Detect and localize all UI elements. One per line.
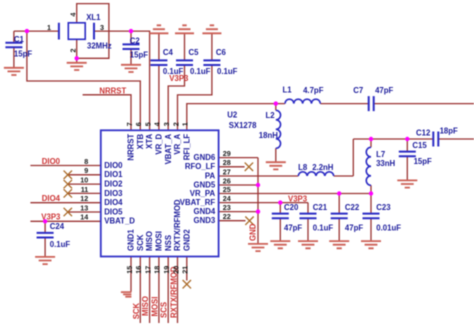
svg-text:DIO0: DIO0 — [42, 157, 61, 166]
svg-text:27: 27 — [223, 167, 231, 176]
svg-text:6: 6 — [134, 122, 143, 126]
svg-text:NRRST: NRRST — [127, 134, 136, 161]
svg-text:RFI_LF: RFI_LF — [182, 134, 191, 161]
svg-text:7: 7 — [125, 122, 134, 126]
svg-text:4: 4 — [153, 122, 162, 126]
svg-text:12: 12 — [80, 194, 88, 203]
svg-text:16: 16 — [134, 266, 143, 274]
svg-text:DIO2: DIO2 — [104, 180, 123, 189]
svg-text:VBAT_D: VBAT_D — [104, 217, 135, 226]
svg-text:GND1: GND1 — [127, 229, 136, 251]
svg-text:18pF: 18pF — [440, 127, 458, 136]
svg-text:0.1uF: 0.1uF — [190, 67, 211, 76]
svg-text:C23: C23 — [376, 203, 391, 212]
svg-text:SCK: SCK — [136, 234, 145, 251]
svg-text:0.1uF: 0.1uF — [217, 67, 238, 76]
svg-text:RXTX/RFMOD: RXTX/RFMOD — [173, 199, 182, 251]
svg-text:VR_A: VR_A — [173, 133, 182, 154]
svg-text:9: 9 — [84, 166, 88, 175]
svg-text:29: 29 — [223, 149, 231, 158]
svg-text:MISO: MISO — [145, 231, 154, 251]
svg-text:23: 23 — [223, 203, 231, 212]
svg-text:3: 3 — [100, 23, 104, 32]
svg-text:GND6: GND6 — [194, 153, 216, 162]
svg-text:22: 22 — [223, 212, 231, 221]
svg-text:C21: C21 — [313, 203, 328, 212]
svg-text:VR_PA: VR_PA — [190, 189, 216, 198]
svg-text:C22: C22 — [345, 203, 360, 212]
svg-text:GND2: GND2 — [182, 229, 191, 251]
svg-text:0.01uF: 0.01uF — [376, 224, 401, 233]
svg-text:PA: PA — [205, 171, 216, 180]
svg-text:13: 13 — [80, 203, 88, 212]
svg-text:C1: C1 — [14, 35, 25, 44]
svg-text:SCK: SCK — [132, 302, 141, 319]
svg-text:1: 1 — [47, 23, 51, 32]
svg-text:C20: C20 — [284, 203, 299, 212]
svg-text:SCS: SCS — [160, 302, 169, 318]
svg-text:C12: C12 — [416, 128, 431, 137]
svg-text:47pF: 47pF — [284, 224, 302, 233]
svg-text:XTA: XTA — [145, 133, 154, 148]
svg-text:11: 11 — [81, 185, 89, 194]
svg-text:21: 21 — [181, 266, 190, 274]
svg-text:VR_D: VR_D — [155, 133, 164, 154]
svg-text:17: 17 — [143, 266, 152, 274]
svg-text:4: 4 — [69, 13, 78, 17]
svg-text:V3P3: V3P3 — [169, 74, 189, 83]
svg-text:L1: L1 — [283, 86, 293, 95]
svg-text:MISO: MISO — [141, 296, 150, 316]
svg-text:15: 15 — [125, 266, 134, 274]
svg-text:18: 18 — [153, 266, 162, 274]
svg-text:XL1: XL1 — [86, 13, 101, 22]
svg-text:C15: C15 — [412, 141, 427, 150]
svg-text:L2: L2 — [266, 111, 276, 120]
svg-text:4.7pF: 4.7pF — [303, 86, 324, 95]
svg-text:DIO5: DIO5 — [104, 207, 123, 216]
svg-text:8: 8 — [84, 157, 88, 166]
svg-text:C6: C6 — [216, 48, 227, 57]
svg-text:C2: C2 — [130, 37, 141, 46]
svg-text:47pF: 47pF — [345, 224, 363, 233]
svg-text:47pF: 47pF — [375, 86, 393, 95]
svg-text:C24: C24 — [50, 222, 65, 231]
svg-text:19: 19 — [162, 266, 171, 274]
svg-text:GND: GND — [249, 223, 258, 241]
svg-text:DIO1: DIO1 — [104, 170, 123, 179]
svg-text:2: 2 — [171, 122, 180, 126]
svg-text:15pF: 15pF — [130, 50, 148, 59]
svg-text:RFO_LF: RFO_LF — [185, 162, 216, 171]
svg-text:NSS: NSS — [164, 235, 173, 251]
svg-text:VBAT_RF: VBAT_RF — [180, 198, 216, 207]
svg-text:DIO4: DIO4 — [42, 194, 61, 203]
svg-text:5: 5 — [143, 122, 152, 126]
svg-text:C4: C4 — [163, 48, 174, 57]
svg-text:XTB: XTB — [136, 133, 145, 149]
svg-text:U2: U2 — [227, 111, 238, 120]
svg-text:GND3: GND3 — [194, 216, 216, 225]
svg-text:L8: L8 — [298, 163, 308, 172]
svg-text:DIO0: DIO0 — [104, 161, 123, 170]
svg-text:NRRST: NRRST — [99, 87, 126, 96]
svg-text:1: 1 — [181, 122, 190, 126]
svg-text:32MHz: 32MHz — [87, 41, 112, 50]
svg-text:18nH: 18nH — [259, 131, 278, 140]
svg-text:SX1278: SX1278 — [229, 121, 257, 130]
svg-text:15pF: 15pF — [414, 157, 432, 166]
svg-text:25: 25 — [223, 185, 231, 194]
svg-text:2: 2 — [69, 49, 78, 53]
svg-text:15pF: 15pF — [14, 50, 32, 59]
svg-text:DIO3: DIO3 — [104, 189, 123, 198]
svg-text:20: 20 — [171, 266, 180, 274]
svg-text:C5: C5 — [189, 48, 200, 57]
svg-text:0.1uF: 0.1uF — [313, 224, 334, 233]
svg-text:3: 3 — [162, 122, 171, 126]
svg-text:28: 28 — [223, 158, 231, 167]
svg-text:MOSI: MOSI — [150, 297, 159, 317]
svg-text:33nH: 33nH — [376, 159, 395, 168]
svg-text:V3P3: V3P3 — [288, 194, 308, 203]
svg-text:10: 10 — [80, 176, 88, 185]
svg-text:GND4: GND4 — [194, 207, 216, 216]
svg-text:MOSI: MOSI — [155, 231, 164, 251]
svg-text:14: 14 — [80, 213, 88, 222]
svg-text:C7: C7 — [353, 86, 363, 95]
svg-text:0.1uF: 0.1uF — [50, 240, 71, 249]
svg-text:V3P3: V3P3 — [41, 213, 61, 222]
svg-text:VBAT_A: VBAT_A — [164, 133, 173, 164]
svg-text:DIO4: DIO4 — [104, 198, 123, 207]
svg-text:24: 24 — [223, 194, 231, 203]
svg-text:2.2nH: 2.2nH — [312, 163, 334, 172]
svg-text:L7: L7 — [376, 150, 385, 159]
